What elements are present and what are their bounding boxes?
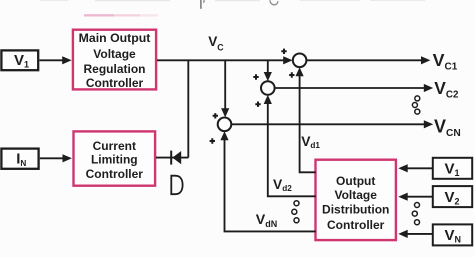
svg-text:Controller: Controller xyxy=(86,76,144,90)
svg-text:Output: Output xyxy=(336,174,375,188)
svg-text:Distribution: Distribution xyxy=(322,203,389,217)
svg-text:Voltage: Voltage xyxy=(93,47,136,61)
svg-text:Controller: Controller xyxy=(86,167,144,181)
svg-text:Current: Current xyxy=(93,139,136,153)
svg-text:Regulation: Regulation xyxy=(84,62,146,76)
svg-text:Main Output: Main Output xyxy=(79,31,151,45)
svg-text:Limiting: Limiting xyxy=(91,153,138,167)
svg-text:Controller: Controller xyxy=(327,218,385,232)
svg-text:Voltage: Voltage xyxy=(334,188,377,202)
